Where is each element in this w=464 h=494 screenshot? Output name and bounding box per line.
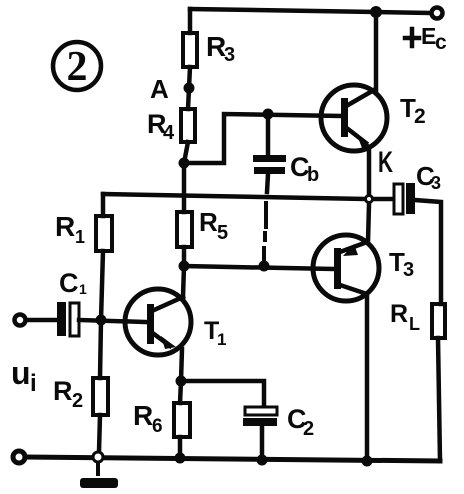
label ui — [11, 355, 37, 397]
wire T1 collector up — [183, 266, 184, 297]
node junction dashed line bottom — [259, 261, 270, 272]
wire bottom rail — [25, 457, 440, 461]
resistor R4 — [181, 109, 195, 142]
capacitor C1 — [57, 302, 79, 336]
bottom terminal — [13, 451, 25, 463]
node R2 ground junction — [93, 452, 103, 462]
wire junction to T2 base — [184, 114, 340, 163]
wire emitter to R6 — [180, 381, 181, 403]
wire T3 collector down — [365, 294, 370, 461]
node K — [366, 196, 373, 203]
node T3 collector bottom — [362, 456, 373, 467]
ground — [80, 464, 118, 488]
svg-text:3: 3 — [431, 173, 441, 193]
wire T1 collector to mid node — [184, 266, 332, 269]
svg-text:u: u — [11, 355, 31, 391]
wire mid rail — [103, 194, 364, 199]
svg-text:R: R — [55, 211, 75, 242]
node A — [184, 83, 195, 94]
svg-text:L: L — [409, 314, 420, 334]
resistor R5 — [177, 212, 192, 247]
node T1 collector junction — [179, 261, 190, 272]
svg-text:3: 3 — [403, 259, 414, 281]
wire R6 to bottom rail — [178, 437, 183, 458]
wire A to R4 — [188, 88, 189, 109]
svg-text:4: 4 — [163, 122, 175, 144]
wire R4 to junction — [184, 142, 188, 163]
svg-text:1: 1 — [75, 227, 85, 247]
wire R2 to bottom rail — [99, 415, 100, 452]
svg-text:6: 6 — [152, 416, 163, 437]
wire R3 to A — [189, 67, 190, 88]
svg-text:2: 2 — [67, 44, 88, 90]
terminal +Ec — [432, 8, 443, 19]
svg-text:2: 2 — [72, 390, 83, 412]
resistor R1 — [96, 216, 112, 251]
node junction top rail — [370, 6, 382, 18]
node R6 bottom — [175, 453, 186, 464]
capacitor Cb — [253, 114, 286, 262]
figure number circled 2 — [53, 42, 101, 90]
svg-text:C: C — [59, 268, 79, 298]
capacitor C3 — [374, 183, 441, 304]
wire top rail — [190, 9, 429, 13]
wire C1 to T1 base — [79, 320, 146, 322]
svg-text:2: 2 — [414, 105, 426, 128]
svg-text:3: 3 — [224, 44, 235, 66]
svg-text:b: b — [307, 164, 319, 186]
capacitor C2 — [243, 407, 277, 459]
resistor R6 — [174, 403, 190, 437]
svg-text:R: R — [53, 376, 73, 406]
node base junction — [96, 315, 107, 326]
wire T2 collector — [374, 12, 379, 90]
svg-text:c: c — [435, 31, 447, 54]
svg-text:R: R — [133, 400, 153, 431]
svg-text:R: R — [390, 300, 408, 328]
wire vertical through R5 — [182, 163, 187, 212]
wire mid rail to R1 — [101, 194, 106, 216]
svg-text:1: 1 — [79, 281, 87, 297]
transistor T2 — [321, 85, 387, 151]
node C2 bottom — [257, 455, 268, 466]
wire emitter to C2 — [181, 381, 264, 407]
wire base node to R2 — [100, 320, 101, 378]
wire K to T3 emitter — [368, 204, 369, 242]
svg-text:i: i — [30, 370, 37, 397]
input terminal top — [15, 315, 26, 326]
wire R1 to base node — [101, 251, 103, 320]
transistor T1 — [125, 289, 191, 355]
svg-text:1: 1 — [217, 330, 226, 349]
node junction below R4 — [179, 158, 190, 169]
svg-text:R: R — [199, 207, 218, 237]
node junction Cb top — [263, 109, 274, 120]
wire R3 top — [188, 9, 193, 33]
wire input to C1 — [26, 318, 57, 323]
svg-text:A: A — [150, 74, 169, 104]
wire RL to bottom rail — [438, 338, 440, 461]
wire T1 emitter down — [181, 349, 182, 381]
label +Ec — [405, 23, 447, 54]
resistor RL — [432, 304, 445, 338]
wire T2 emitter to K — [367, 147, 372, 193]
resistor R3 — [183, 33, 197, 67]
node T1 emitter junction — [176, 376, 187, 387]
svg-text:K: K — [378, 146, 393, 179]
resistor R2 — [93, 378, 108, 415]
svg-text:2: 2 — [303, 418, 314, 440]
wire R5 bottom — [182, 247, 187, 266]
svg-text:5: 5 — [217, 222, 228, 244]
transistor T3 — [313, 235, 379, 301]
